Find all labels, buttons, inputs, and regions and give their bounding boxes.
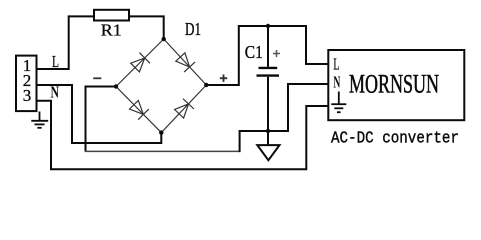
wire: bridge negative output down from left vertex xyxy=(86,87,117,152)
diode top-right (anode at top, cathode at + vertex) xyxy=(176,53,195,72)
svg-text:MORNSUN: MORNSUN xyxy=(349,69,439,99)
svg-text:C1: C1 xyxy=(245,42,263,62)
diode top-left (anode at - vertex, cathode at top) xyxy=(131,53,150,72)
chassis ground arrow below C1 xyxy=(257,145,279,160)
wire: pin3 to bottom rail to module earth pin xyxy=(37,101,329,169)
ground (earth symbol under connector) xyxy=(31,112,48,128)
svg-text:D1: D1 xyxy=(185,19,201,39)
wire: R1 to bridge top vertex xyxy=(129,16,164,39)
label plus (bridge positive output) xyxy=(220,75,227,82)
module U1 MORNSUN AC-DC converter box xyxy=(328,50,464,120)
node dot: bridge right vertex xyxy=(204,83,208,87)
wire: pin1 to top rail into R1 xyxy=(37,16,95,69)
wire: negative rail horizontal run (thin) xyxy=(85,150,240,152)
capacitor C1 (polarized) xyxy=(267,26,269,67)
node dot: junction C1 bottom with - rail xyxy=(266,129,270,133)
svg-text:R1: R1 xyxy=(101,21,122,40)
diode bottom-right (anode at bottom, cathode at + vertex) xyxy=(175,99,194,118)
resistor R1 xyxy=(94,10,129,21)
node dot: junction C1 top with + rail xyxy=(266,24,270,28)
module earth pin symbol xyxy=(331,92,346,113)
diode bottom-left (anode at - vertex, cathode at bottom) xyxy=(130,100,149,119)
C1 polarity plus xyxy=(273,50,280,57)
svg-text:AC-DC converter: AC-DC converter xyxy=(331,129,459,148)
svg-text:N: N xyxy=(333,72,340,91)
node dot: bridge top vertex xyxy=(162,37,166,41)
diode bridge D1 diamond edges xyxy=(116,39,206,133)
wire: pin2 to bridge bottom vertex (AC input 2) xyxy=(37,85,162,143)
svg-text:L: L xyxy=(333,54,339,73)
wire: negative rail up and into module N pin xyxy=(240,84,328,152)
node dot: bridge left vertex xyxy=(114,84,118,88)
connector J1 (terminal block 1 2 3) xyxy=(16,56,37,112)
node dot: bridge bottom vertex xyxy=(159,130,163,134)
wire: bridge positive output to module L pin xyxy=(206,26,328,85)
svg-text:3: 3 xyxy=(23,86,32,105)
label minus (bridge negative output) xyxy=(93,77,101,79)
